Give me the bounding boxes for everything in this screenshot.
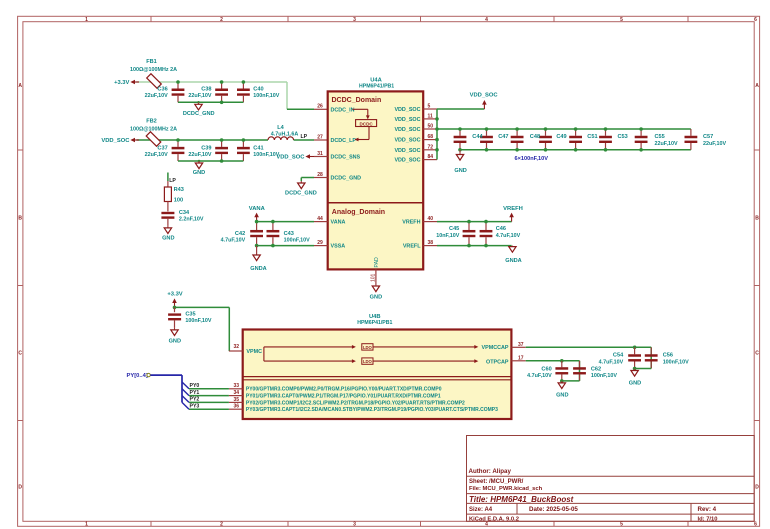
- svg-text:2: 2: [220, 522, 223, 528]
- svg-text:GND: GND: [454, 168, 466, 174]
- svg-text:DCDC_IN: DCDC_IN: [331, 107, 355, 113]
- svg-text:VDD_SOC: VDD_SOC: [394, 138, 420, 144]
- svg-text:LDO: LDO: [363, 359, 373, 364]
- svg-text:PY2: PY2: [190, 397, 200, 403]
- svg-text:PY00/GPTMR3.COMP0/PWM2.P0/TRGM: PY00/GPTMR3.COMP0/PWM2.P0/TRGM.P16/PGPIO…: [246, 387, 442, 393]
- svg-text:100Ω@100MHz 2A: 100Ω@100MHz 2A: [130, 67, 177, 73]
- svg-text:PY03/GPTMR3.CAPT1/I2C2.SDA/MCA: PY03/GPTMR3.CAPT1/I2C2.SDA/MCAN0.STBY/PW…: [246, 407, 498, 413]
- svg-text:U4A: U4A: [370, 77, 382, 83]
- svg-text:101: 101: [371, 273, 377, 282]
- svg-text:LP: LP: [169, 178, 176, 184]
- svg-text:GND: GND: [556, 392, 568, 398]
- svg-text:C49: C49: [556, 134, 566, 140]
- svg-text:100: 100: [174, 197, 183, 203]
- svg-text:FB2: FB2: [146, 119, 157, 125]
- svg-text:22uF,10V: 22uF,10V: [188, 152, 211, 158]
- svg-text:32: 32: [233, 344, 239, 350]
- svg-text:3: 3: [353, 17, 356, 23]
- svg-text:26: 26: [317, 104, 323, 110]
- svg-text:4.7uF,10V: 4.7uF,10V: [599, 360, 624, 366]
- svg-text:4: 4: [485, 17, 488, 23]
- svg-text:B: B: [18, 216, 22, 222]
- svg-text:Id: 7/10: Id: 7/10: [698, 516, 718, 522]
- svg-text:VREFH: VREFH: [402, 220, 420, 226]
- svg-text:C46: C46: [496, 226, 506, 232]
- svg-text:C47: C47: [498, 134, 508, 140]
- svg-text:GNDA: GNDA: [250, 266, 266, 272]
- svg-text:GND: GND: [629, 380, 641, 386]
- svg-text:100nF,10V: 100nF,10V: [284, 238, 310, 244]
- svg-text:22uF,10V: 22uF,10V: [188, 93, 211, 99]
- svg-text:GND: GND: [193, 170, 205, 176]
- svg-text:100nF,10V: 100nF,10V: [663, 360, 689, 366]
- svg-text:File: MCU_PWR.kicad_sch: File: MCU_PWR.kicad_sch: [469, 486, 543, 492]
- svg-text:+3.3V: +3.3V: [114, 80, 129, 86]
- svg-text:35: 35: [233, 397, 239, 403]
- svg-text:D: D: [18, 485, 22, 491]
- svg-text:GND: GND: [370, 294, 382, 300]
- svg-text:PY02/GPTMR3.COMP1/I2C2.SCL/PWM: PY02/GPTMR3.COMP1/I2C2.SCL/PWM2.P2/TRGM.…: [246, 400, 465, 406]
- svg-text:Title: HPM6P41_BuckBoost: Title: HPM6P41_BuckBoost: [469, 495, 574, 504]
- svg-text:100nF,10V: 100nF,10V: [253, 93, 279, 99]
- svg-text:C43: C43: [284, 231, 294, 237]
- svg-text:Date: 2025-05-05: Date: 2025-05-05: [529, 506, 578, 513]
- svg-text:LP: LP: [301, 134, 308, 140]
- svg-text:100nF,10V: 100nF,10V: [591, 373, 617, 379]
- svg-text:C45: C45: [449, 226, 459, 232]
- svg-text:4: 4: [485, 522, 488, 528]
- svg-text:33: 33: [233, 383, 239, 389]
- svg-text:A: A: [755, 83, 759, 89]
- svg-text:VANA: VANA: [331, 220, 346, 226]
- svg-text:22uF,10V: 22uF,10V: [655, 141, 678, 147]
- svg-text:VPMCCAP: VPMCCAP: [482, 345, 509, 351]
- svg-text:C39: C39: [201, 145, 211, 151]
- svg-text:GND: GND: [162, 236, 174, 242]
- svg-text:5: 5: [620, 17, 623, 23]
- svg-text:C54: C54: [613, 353, 624, 359]
- svg-text:B: B: [755, 216, 759, 222]
- svg-text:VDD_SOC: VDD_SOC: [394, 127, 420, 133]
- svg-text:PY0: PY0: [190, 383, 200, 389]
- svg-text:PY1: PY1: [190, 390, 200, 396]
- svg-text:DCDC_GND: DCDC_GND: [285, 190, 317, 196]
- svg-text:VSSA: VSSA: [331, 244, 346, 250]
- svg-text:OTPCAP: OTPCAP: [486, 359, 509, 365]
- svg-text:VANA: VANA: [249, 206, 266, 212]
- svg-text:6×100nF,10V: 6×100nF,10V: [515, 156, 549, 162]
- svg-text:GND: GND: [169, 339, 181, 345]
- svg-text:C53: C53: [618, 134, 628, 140]
- svg-text:FB1: FB1: [146, 59, 157, 65]
- svg-text:PAD: PAD: [374, 257, 380, 268]
- svg-text:2: 2: [220, 17, 223, 23]
- svg-text:C42: C42: [235, 231, 245, 237]
- svg-text:27: 27: [317, 134, 323, 140]
- svg-text:DCDC_SNS: DCDC_SNS: [331, 155, 361, 161]
- svg-text:VREFH: VREFH: [503, 206, 523, 212]
- svg-text:C62: C62: [591, 366, 601, 372]
- svg-text:C34: C34: [179, 210, 190, 216]
- svg-text:C41: C41: [253, 145, 263, 151]
- svg-text:VDD_SOC: VDD_SOC: [276, 155, 305, 161]
- svg-text:VDD_SOC: VDD_SOC: [394, 107, 420, 113]
- svg-text:100Ω@100MHz 2A: 100Ω@100MHz 2A: [130, 126, 177, 132]
- svg-text:DCDC_GND: DCDC_GND: [331, 176, 362, 182]
- svg-text:2.2nF,10V: 2.2nF,10V: [179, 217, 204, 223]
- svg-text:5: 5: [620, 522, 623, 528]
- svg-text:VDD_SOC: VDD_SOC: [470, 93, 499, 99]
- svg-text:C55: C55: [655, 134, 665, 140]
- svg-text:DCDC: DCDC: [359, 121, 373, 126]
- svg-text:100nF,10V: 100nF,10V: [185, 318, 211, 324]
- svg-text:LDO: LDO: [363, 345, 373, 350]
- svg-text:VREFL: VREFL: [403, 244, 421, 250]
- svg-text:PY3: PY3: [190, 404, 200, 410]
- svg-text:C60: C60: [541, 366, 551, 372]
- svg-text:+3.3V: +3.3V: [167, 291, 182, 297]
- svg-text:C44: C44: [472, 134, 483, 140]
- svg-text:C38: C38: [201, 86, 211, 92]
- svg-text:3: 3: [353, 522, 356, 528]
- svg-text:C48: C48: [530, 134, 540, 140]
- svg-text:DCDC_Domain: DCDC_Domain: [332, 97, 382, 104]
- svg-text:D: D: [755, 485, 759, 491]
- svg-text:C57: C57: [703, 134, 713, 140]
- svg-text:C36: C36: [157, 86, 167, 92]
- svg-text:C40: C40: [253, 86, 263, 92]
- svg-text:Rev: 4: Rev: 4: [698, 506, 717, 513]
- svg-text:GNDA: GNDA: [505, 258, 521, 264]
- svg-text:36: 36: [233, 404, 239, 410]
- svg-text:L4: L4: [277, 125, 284, 131]
- svg-text:22uF,10V: 22uF,10V: [145, 93, 168, 99]
- svg-text:C56: C56: [663, 353, 673, 359]
- svg-text:4.7uH,1.6A: 4.7uH,1.6A: [271, 132, 299, 138]
- svg-text:C35: C35: [185, 311, 195, 317]
- svg-text:VDD_SOC: VDD_SOC: [394, 117, 420, 123]
- svg-text:HPM6P41/PB1: HPM6P41/PB1: [359, 84, 394, 90]
- svg-text:Analog_Domain: Analog_Domain: [332, 209, 385, 216]
- svg-text:6: 6: [754, 522, 757, 528]
- svg-text:34: 34: [233, 390, 239, 396]
- svg-text:Sheet: /MCU_PWR/: Sheet: /MCU_PWR/: [469, 479, 524, 485]
- svg-text:PY01/GPTMR3.CAPT0/PWM2.P1/TRGM: PY01/GPTMR3.CAPT0/PWM2.P1/TRGM.P17/PGPIO…: [246, 394, 441, 400]
- svg-text:VDD_SOC: VDD_SOC: [101, 138, 130, 144]
- svg-text:PY[0..4]: PY[0..4]: [127, 373, 148, 379]
- svg-text:4.7uF,10V: 4.7uF,10V: [496, 233, 521, 239]
- svg-text:Size: A4: Size: A4: [469, 507, 493, 513]
- svg-text:C: C: [755, 351, 759, 357]
- svg-text:6: 6: [754, 17, 757, 23]
- svg-text:1: 1: [85, 522, 88, 528]
- svg-text:Author: Alipay: Author: Alipay: [469, 468, 512, 475]
- svg-text:R43: R43: [174, 187, 184, 193]
- svg-text:22uF,10V: 22uF,10V: [703, 141, 726, 147]
- svg-text:C51: C51: [587, 134, 597, 140]
- svg-text:4.7uF,10V: 4.7uF,10V: [221, 238, 246, 244]
- svg-text:22uF,10V: 22uF,10V: [145, 152, 168, 158]
- svg-text:1: 1: [85, 17, 88, 23]
- svg-text:VPMC: VPMC: [246, 349, 262, 355]
- svg-text:HPM6P41/PB1: HPM6P41/PB1: [357, 320, 392, 326]
- svg-text:10nF,10V: 10nF,10V: [436, 233, 459, 239]
- svg-text:C: C: [18, 351, 22, 357]
- svg-text:KiCad E.D.A. 9.0.2: KiCad E.D.A. 9.0.2: [469, 516, 519, 522]
- svg-text:DCDC_LP: DCDC_LP: [331, 138, 357, 144]
- svg-text:A: A: [18, 83, 22, 89]
- svg-text:4.7uF,10V: 4.7uF,10V: [527, 373, 552, 379]
- svg-text:VDD_SOC: VDD_SOC: [394, 148, 420, 154]
- svg-text:VDD_SOC: VDD_SOC: [394, 158, 420, 164]
- svg-text:C37: C37: [157, 145, 167, 151]
- svg-text:DCDC_GND: DCDC_GND: [183, 111, 215, 117]
